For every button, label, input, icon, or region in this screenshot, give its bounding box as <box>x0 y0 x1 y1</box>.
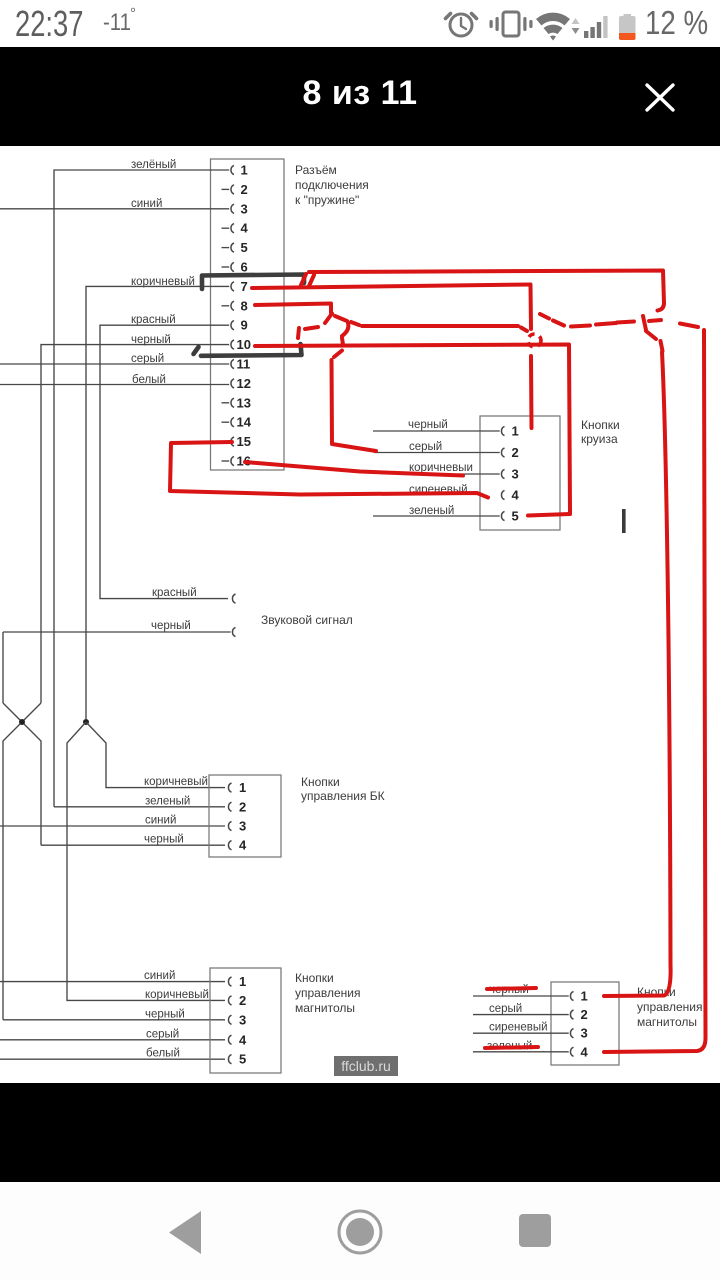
wire серый to магнитола pin 4 (exits left) <box>0 1039 225 1041</box>
svg-text:2: 2 <box>239 993 246 1008</box>
pin 2 of X5 <box>570 1007 587 1022</box>
svg-text:Разъём: Разъём <box>295 163 337 177</box>
label зеленый (БК) <box>145 796 190 808</box>
wire черный horn drop at x=3 <box>2 632 4 703</box>
pin 7 of X1 <box>231 279 248 294</box>
horn красный pin <box>232 594 235 603</box>
label коричневый (БК) <box>144 776 208 788</box>
svg-text:управления БК: управления БК <box>301 789 385 803</box>
pin 4 of X4 <box>228 1032 247 1047</box>
wire белый to магнитола pin 5 (exits left) <box>0 1058 225 1060</box>
label Кнопки управления магнитолы (right) <box>637 985 702 1029</box>
svg-text:серый: серый <box>489 1003 522 1015</box>
red strikethrough зеленый <box>485 1047 538 1048</box>
svg-text:5: 5 <box>241 240 248 255</box>
svg-text:зеленый: зеленый <box>145 796 190 808</box>
wire stub X5 pin 1 <box>473 995 569 997</box>
android nav bar <box>0 1182 720 1280</box>
svg-text:4: 4 <box>581 1044 589 1059</box>
svg-text:магнитолы: магнитолы <box>637 1015 697 1029</box>
red wire pin15 to cruise pin4 <box>170 442 488 498</box>
label красный <box>131 314 176 326</box>
pin 1 of X5 <box>570 989 587 1004</box>
svg-text:красный: красный <box>131 314 176 326</box>
svg-text:2: 2 <box>581 1007 588 1022</box>
wifi up/down arrows <box>572 18 580 34</box>
pin 14 of X1 <box>222 415 252 430</box>
svg-text:3: 3 <box>239 1012 246 1027</box>
svg-text:белый: белый <box>146 1048 180 1060</box>
label зеленый (магнитола 2) <box>487 1041 532 1053</box>
bottom black strip <box>0 1083 720 1182</box>
label Разъём подключения к "пружине" <box>295 163 369 207</box>
vibrate icon <box>490 12 533 36</box>
title bar <box>0 47 720 146</box>
svg-text:12: 12 <box>237 376 251 391</box>
pin 2 of X4 <box>228 993 246 1008</box>
label сиреневый (круиз) <box>409 484 468 496</box>
svg-text:коричневый: коричневый <box>144 776 208 788</box>
label коричневый (магнитола 1) <box>145 989 209 1001</box>
connector X4 (Кнопки управления магнитолы) <box>210 968 281 1073</box>
pin 2 of X3 <box>228 799 246 814</box>
label серый (магнитола 2) <box>489 1003 522 1015</box>
wire to X2 pin 2 <box>374 452 500 454</box>
svg-text:6: 6 <box>241 260 248 275</box>
wire коричневый split junction <box>67 719 225 1000</box>
label черный <box>131 334 171 346</box>
svg-text:черный: черный <box>151 620 191 632</box>
svg-text:к "пружине": к "пружине" <box>295 193 359 207</box>
svg-text:9: 9 <box>241 318 248 333</box>
connector X5 (Кнопки управления магнитолы правый) <box>551 982 619 1065</box>
svg-text:круиза: круиза <box>581 432 618 446</box>
svg-text:Кнопки: Кнопки <box>295 971 334 985</box>
svg-text:серый: серый <box>146 1029 179 1041</box>
wire stub X5 pin 2 <box>473 1014 569 1016</box>
pin 4 of X1 <box>222 221 249 236</box>
wire серый to pin 11 (exits left) <box>0 363 229 365</box>
svg-text:3: 3 <box>512 467 519 482</box>
svg-text:синий: синий <box>144 970 175 982</box>
red wire right vertical to магнитола2 pin1 <box>604 352 671 996</box>
junction dot black twist <box>19 719 25 725</box>
svg-text:1: 1 <box>241 163 248 178</box>
pin 3 of X3 <box>228 819 246 834</box>
wire синий to магнитола pin 1 (exits left) <box>0 981 225 983</box>
svg-text:5: 5 <box>512 509 519 524</box>
svg-text:13: 13 <box>237 395 251 410</box>
pin 13 of X1 <box>222 395 251 410</box>
wire stub X5 pin 3 <box>473 1032 569 1034</box>
status bar <box>0 0 720 47</box>
svg-text:серый: серый <box>131 353 164 365</box>
svg-text:черный: черный <box>144 834 184 846</box>
label Звуковой сигнал <box>261 613 353 627</box>
svg-text:коричневый: коричневый <box>145 989 209 1001</box>
label серый (магнитола 1) <box>146 1029 179 1041</box>
wire красный to pin 9 <box>100 325 229 598</box>
pin 4 of X3 <box>228 838 247 853</box>
svg-text:ffclub.ru: ffclub.ru <box>341 1058 391 1074</box>
wire черный to магнитола pin 3 <box>3 1019 225 1021</box>
svg-text:синий: синий <box>145 815 176 827</box>
label синий (магнитола 1) <box>144 970 175 982</box>
wire to X2 pin 1 <box>373 430 500 432</box>
svg-text:Звуковой сигнал: Звуковой сигнал <box>261 613 353 627</box>
label черный (круиз) <box>408 419 448 431</box>
label зеленый (круиз) <box>409 505 454 517</box>
red wire pin10 to cruise pin5 <box>255 345 570 516</box>
svg-text:5: 5 <box>239 1052 246 1067</box>
alarm clock icon <box>446 14 477 37</box>
svg-text:8: 8 <box>241 298 248 313</box>
label синий (БК) <box>145 815 176 827</box>
red strikethrough черный <box>487 988 536 989</box>
pin 1 of X3 <box>228 780 246 795</box>
label коричневый <box>131 276 195 288</box>
pin 2 of X1 <box>222 182 248 197</box>
wire коричневый to pin 7 <box>86 286 229 719</box>
wire to X2 pin 5 <box>373 515 500 517</box>
svg-text:4: 4 <box>239 838 247 853</box>
svg-text:черный: черный <box>145 1009 185 1021</box>
wire белый to pin 12 (exits left) <box>0 384 229 386</box>
svg-text:управления: управления <box>295 986 360 1000</box>
svg-text:красный: красный <box>152 587 197 599</box>
pin 5 of X1 <box>222 240 248 255</box>
svg-text:2: 2 <box>241 182 248 197</box>
svg-text:1: 1 <box>239 974 246 989</box>
label черный (магнитола 1) <box>145 1009 185 1021</box>
wire зелёный to pin 1 <box>54 170 229 807</box>
red wire far right vertical to магнитола2 pin4 <box>604 330 706 1052</box>
label черный (БК) <box>144 834 184 846</box>
red wire pin8 to cruise pin2 <box>255 304 376 452</box>
svg-text:7: 7 <box>241 279 248 294</box>
red wire top horizontal <box>309 271 664 311</box>
pin 5 of X2 <box>501 509 518 524</box>
pin 5 of X4 <box>228 1052 246 1067</box>
svg-text:4: 4 <box>241 221 249 236</box>
svg-text:черный: черный <box>408 419 448 431</box>
pin 1 of X2 <box>501 424 518 439</box>
label Кнопки управления БК <box>301 775 385 803</box>
black mark I <box>622 509 626 533</box>
connector X2 (Кнопки круиза) <box>480 416 560 530</box>
svg-text:подключения: подключения <box>295 178 369 192</box>
pin 2 of X2 <box>501 445 518 460</box>
label сиреневый (магнитола 2) <box>489 1022 548 1034</box>
svg-text:2: 2 <box>512 445 519 460</box>
pin 3 of X5 <box>570 1026 587 1041</box>
svg-text:15: 15 <box>237 434 251 449</box>
label черный (horn) <box>151 620 191 632</box>
svg-text:зеленый: зеленый <box>409 505 454 517</box>
svg-text:1: 1 <box>512 424 519 439</box>
label коричневыи (круиз) <box>409 462 473 474</box>
pin 4 of X2 <box>501 488 519 503</box>
wire twist crossover left <box>3 703 41 1020</box>
wire stub X5 pin 4 <box>473 1051 569 1053</box>
pin 3 of X1 <box>231 201 248 216</box>
label зелёный <box>131 159 176 171</box>
svg-text:10: 10 <box>237 337 251 352</box>
svg-text:1: 1 <box>239 780 246 795</box>
svg-text:Кнопки: Кнопки <box>581 418 620 432</box>
red wire pin16 to cruise pin3 <box>245 462 463 476</box>
svg-text:11: 11 <box>237 357 251 372</box>
connector X3 (Кнопки управления БК) <box>209 775 281 857</box>
svg-text:сиреневый: сиреневый <box>489 1022 548 1034</box>
pin 8 of X1 <box>222 298 248 313</box>
svg-text:3: 3 <box>239 819 246 834</box>
pin 1 of X1 <box>231 163 248 178</box>
wire to X2 pin 3 <box>458 473 500 475</box>
wire черный to pin 10 <box>41 345 229 703</box>
svg-text:магнитолы: магнитолы <box>295 1001 355 1015</box>
battery icon <box>619 14 636 40</box>
pin 1 of X4 <box>228 974 246 989</box>
pin 12 of X1 <box>231 376 251 391</box>
gray marker bracket bottom (pin 10) <box>194 344 302 356</box>
pin 6 of X1 <box>222 260 248 275</box>
label белый (магнитола 1) <box>146 1048 180 1060</box>
pin 11 of X1 <box>231 357 250 372</box>
pin 15 of X1 <box>231 434 251 449</box>
pin 4 of X5 <box>570 1044 588 1059</box>
wire черный to БК pin 4 <box>41 844 225 846</box>
label серый <box>131 353 164 365</box>
svg-text:4: 4 <box>512 488 520 503</box>
label Кнопки круиза <box>581 418 620 446</box>
pin 9 of X1 <box>231 318 248 333</box>
wifi icon <box>536 13 570 41</box>
wire зелёный to БК pin 2 <box>54 806 225 808</box>
svg-text:зелёный: зелёный <box>131 159 176 171</box>
red knot dashes (pin 9 area) <box>298 327 318 338</box>
wire синий to pin 3 (exits left) <box>0 208 229 210</box>
pin 10 of X1 <box>231 337 251 352</box>
svg-text:1: 1 <box>581 989 588 1004</box>
svg-text:4: 4 <box>239 1032 247 1047</box>
label Кнопки управления магнитолы (left) <box>295 971 360 1015</box>
label красный (horn) <box>152 587 197 599</box>
wire синий to БК pin 3 (exits left) <box>0 825 225 827</box>
horn черный pin <box>3 627 236 636</box>
pin 3 of X2 <box>501 467 518 482</box>
svg-text:3: 3 <box>581 1026 588 1041</box>
connector X1 (Разъём подключения к пружине) <box>211 159 285 470</box>
label белый <box>132 374 166 386</box>
red wire pin7 to cruise pin1 <box>252 285 541 429</box>
label серый (круиз) <box>409 441 442 453</box>
pin 16 of X1 <box>222 454 251 469</box>
red slashes near pin7 <box>301 274 314 286</box>
svg-text:3: 3 <box>241 201 248 216</box>
svg-text:серый: серый <box>409 441 442 453</box>
pin 3 of X4 <box>228 1012 246 1027</box>
svg-text:14: 14 <box>237 415 252 430</box>
red dashes right section <box>540 314 698 351</box>
gray marker bracket top (pins 6-7) <box>202 275 304 290</box>
svg-text:Кнопки: Кнопки <box>301 775 340 789</box>
red wire middle horizontal to cruise vertical <box>351 322 527 331</box>
label синий <box>131 198 162 210</box>
label черный (магнитола 2) <box>489 984 529 996</box>
signal bars icon <box>584 16 608 38</box>
svg-text:2: 2 <box>239 799 246 814</box>
watermark ffclub.ru <box>334 1056 398 1076</box>
svg-text:управления: управления <box>637 1000 702 1014</box>
